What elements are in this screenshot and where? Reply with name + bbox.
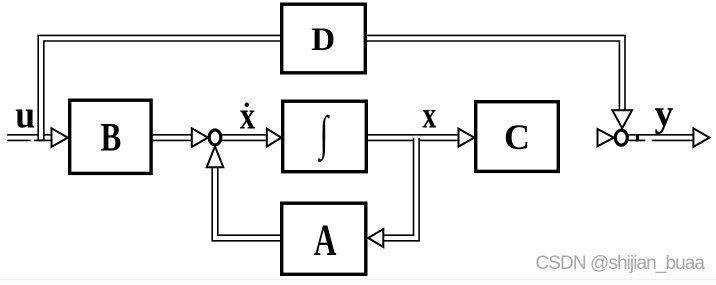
block A [282,203,366,274]
arrowhead up into S1 from A [207,146,224,167]
arrowhead into B [52,128,68,147]
block C [476,102,559,172]
label x-dot [240,94,256,137]
arrowhead down into S2 from D [612,110,632,128]
wire: u input line [7,138,52,142]
wire: x feedback branch down to A [384,136,417,238]
arrowhead left into A [368,229,383,247]
wire: B output to summing junction S1 [152,134,192,141]
block D [282,4,366,73]
wire: integrator output x to C [367,134,459,141]
wire: u branch up and top rail to D [41,38,281,141]
svg-text:x: x [423,94,437,136]
arrowhead into S2 from C [598,129,614,146]
svg-text:y: y [655,93,674,135]
wire: A output back up to S1 [215,167,281,238]
arrowhead into S1 [192,128,208,147]
svg-text:u: u [15,94,35,137]
svg-text:x: x [240,94,256,137]
wire: S1 to integrator [222,134,268,141]
wire: D output top rail and down leg [366,38,622,111]
summing junction S1 [209,130,221,145]
svg-text:B: B [101,115,122,160]
svg-text:C: C [504,117,530,157]
wire: S2 to output y [629,135,694,142]
block B [70,100,151,173]
svg-text:CSDN @shijian_buaa: CSDN @shijian_buaa [536,253,706,274]
block integrator U1 [283,101,367,172]
bottom faint divider [0,279,716,280]
arrowhead output y [693,128,709,147]
summing junction S2 [615,130,627,145]
svg-text:D: D [311,22,335,58]
arrowhead into integrator [267,129,282,147]
svg-text:A: A [314,216,337,265]
arrowhead into C [459,129,475,147]
